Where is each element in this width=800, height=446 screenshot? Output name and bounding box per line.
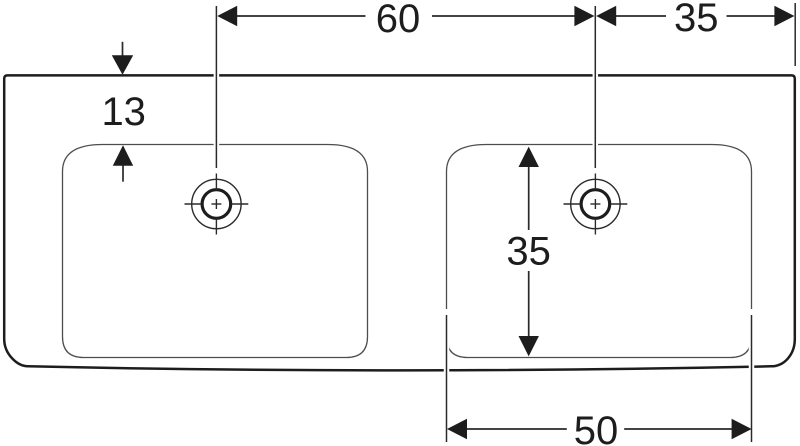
- svg-text:13: 13: [101, 90, 146, 134]
- svg-text:50: 50: [574, 409, 619, 446]
- svg-text:35: 35: [506, 229, 551, 273]
- svg-text:35: 35: [674, 0, 719, 40]
- svg-text:60: 60: [376, 0, 421, 41]
